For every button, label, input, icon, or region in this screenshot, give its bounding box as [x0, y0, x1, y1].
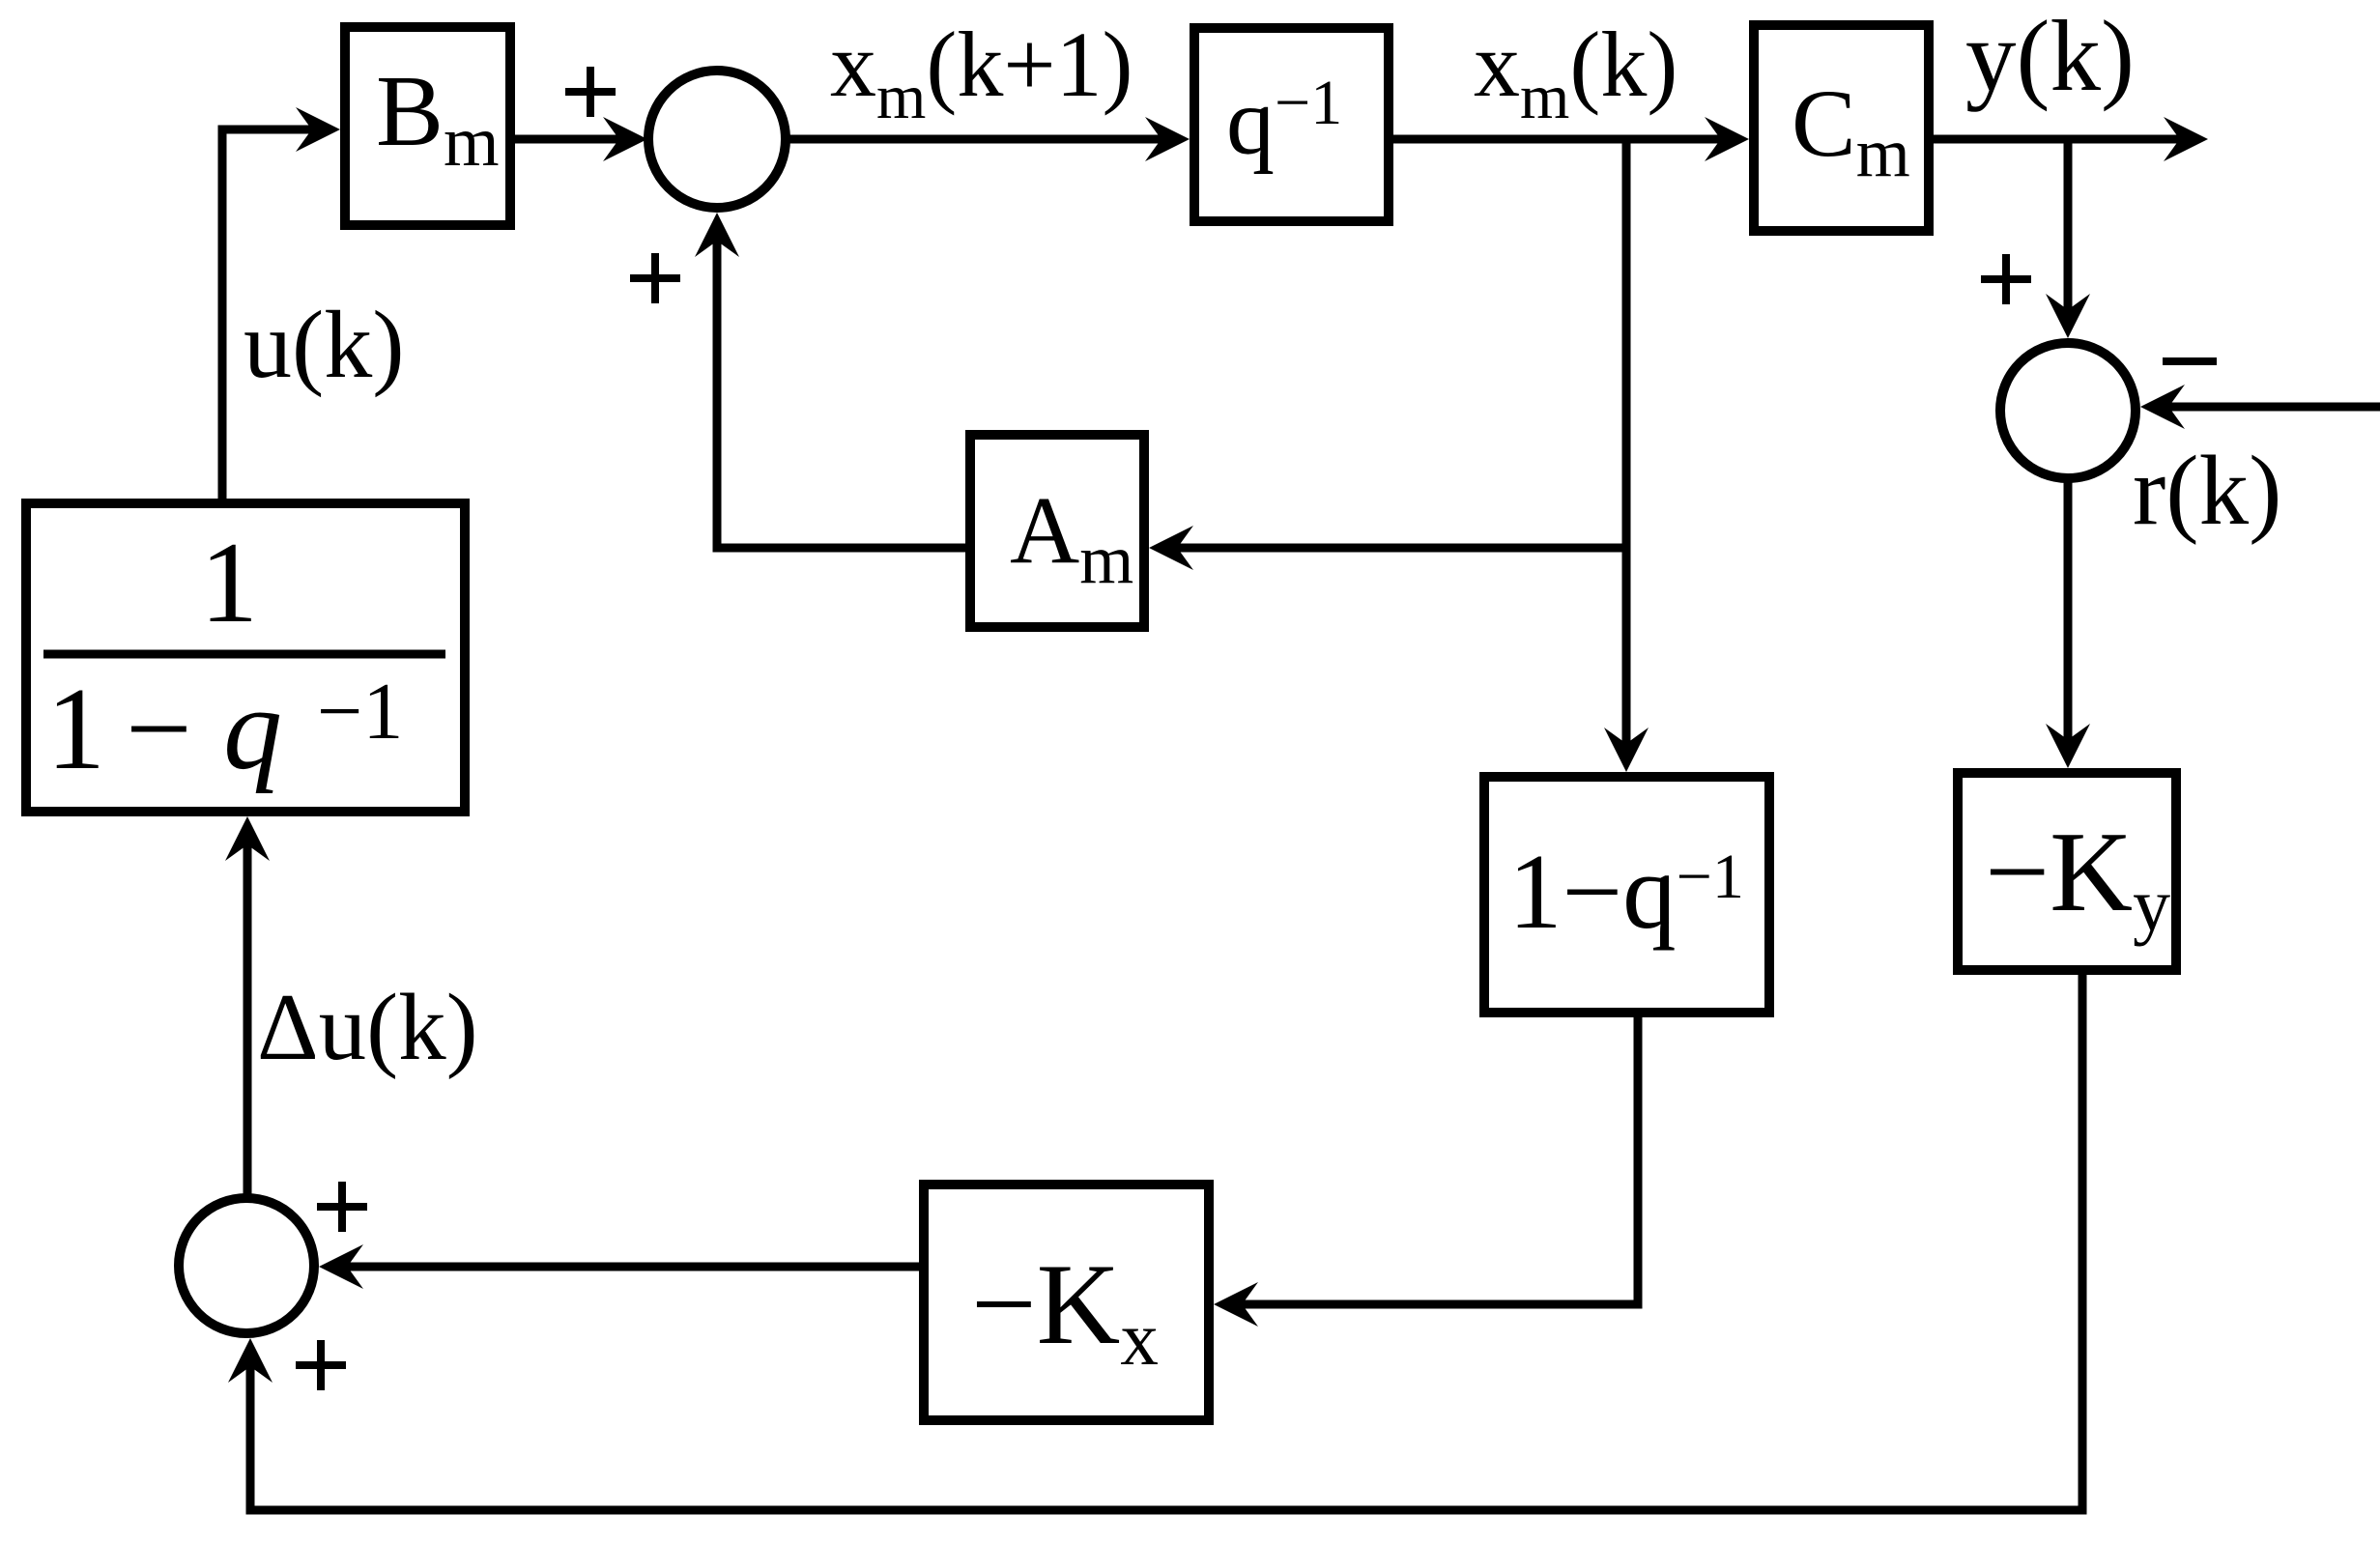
svg-text:xm(k+1): xm(k+1) — [830, 13, 1133, 132]
svg-text:xm(k): xm(k) — [1474, 13, 1677, 132]
svg-text:Δu(k): Δu(k) — [257, 975, 478, 1080]
svg-text:1: 1 — [200, 518, 258, 646]
svg-text:−1: −1 — [317, 667, 403, 757]
svg-text:u(k): u(k) — [244, 291, 405, 398]
svg-text:1: 1 — [46, 664, 105, 794]
svg-text:q: q — [223, 664, 282, 794]
svg-text:−: − — [126, 664, 192, 794]
svg-text:r(k): r(k) — [2133, 436, 2281, 546]
svg-text:y(k): y(k) — [1965, 0, 2135, 112]
